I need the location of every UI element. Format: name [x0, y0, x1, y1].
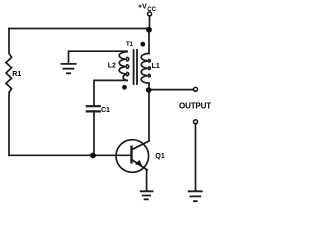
svg-text:OUTPUT: OUTPUT	[179, 102, 211, 111]
svg-text:L2: L2	[108, 63, 116, 70]
svg-text:Q1: Q1	[155, 153, 164, 160]
svg-text:R1: R1	[12, 71, 21, 78]
svg-text:T1: T1	[126, 42, 134, 48]
svg-text:CC: CC	[147, 7, 156, 13]
svg-text:+V: +V	[138, 4, 147, 11]
svg-text:C1: C1	[101, 107, 110, 114]
svg-text:L1: L1	[152, 63, 160, 70]
